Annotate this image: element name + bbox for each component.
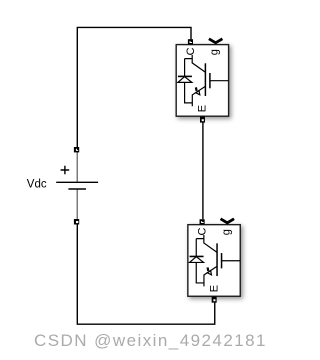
IGBT2 emitter wire <box>204 266 217 286</box>
IGBT2 port E <box>212 296 217 302</box>
IGBT1 emitter wire <box>192 86 205 106</box>
IGBT2 port C <box>200 219 205 224</box>
IGBT/Diode block 1 (top) <box>176 39 228 123</box>
svg-text:g: g <box>209 49 221 55</box>
IGBT2 internal collector wire <box>196 235 217 252</box>
wire from IGBT1 emitter port to IGBT2 collector port <box>202 122 204 219</box>
Vdc positive port <box>74 147 79 152</box>
IGBT1 port C <box>188 39 193 44</box>
IGBT1 diode branch wire <box>185 59 193 103</box>
IGBT2 emitter arrow <box>206 267 209 271</box>
IGBT1 gate input arrow (port g) <box>209 39 223 43</box>
svg-text:g: g <box>220 229 232 235</box>
IGBT/Diode block 2 (bottom) <box>188 219 240 303</box>
IGBT1 body <box>176 45 228 117</box>
IGBT2 transistor main bar <box>216 243 218 276</box>
wire from IGBT2 emitter port down-left to Vdc - terminal <box>77 223 214 325</box>
IGBT2 gate bar <box>221 253 223 268</box>
IGBT2 body <box>188 225 240 297</box>
IGBT2 gate lead <box>222 260 241 262</box>
IGBT2 gate input arrow (port g) <box>221 219 235 223</box>
Vdc negative plate <box>68 188 86 190</box>
Vdc negative port <box>74 219 79 225</box>
svg-text:E: E <box>208 285 220 292</box>
svg-text:C: C <box>185 47 197 55</box>
IGBT1 gate bar <box>209 73 211 88</box>
IGBT1 port E <box>200 116 205 122</box>
svg-text:CSDN @weixin_49242181: CSDN @weixin_49242181 <box>34 331 267 350</box>
svg-text:C: C <box>197 227 209 235</box>
svg-text:Vdc: Vdc <box>27 179 47 191</box>
IGBT2 diode branch wire <box>196 239 204 283</box>
DC voltage source Vdc <box>27 147 98 225</box>
IGBT1 antiparallel diode <box>178 75 192 77</box>
IGBT1 internal collector wire <box>185 55 206 72</box>
Vdc internal lead + side <box>76 152 78 182</box>
svg-text:E: E <box>197 105 209 112</box>
IGBT2 antiparallel diode <box>190 255 204 257</box>
IGBT1 gate lead <box>210 80 229 82</box>
wire from Vdc + terminal to IGBT1 collector port <box>77 27 191 147</box>
Vdc internal lead - side <box>76 189 78 219</box>
Vdc plus sign <box>61 166 70 174</box>
Vdc positive plate <box>56 181 98 183</box>
IGBT1 transistor main bar <box>204 63 206 96</box>
IGBT1 emitter arrow <box>195 87 198 91</box>
